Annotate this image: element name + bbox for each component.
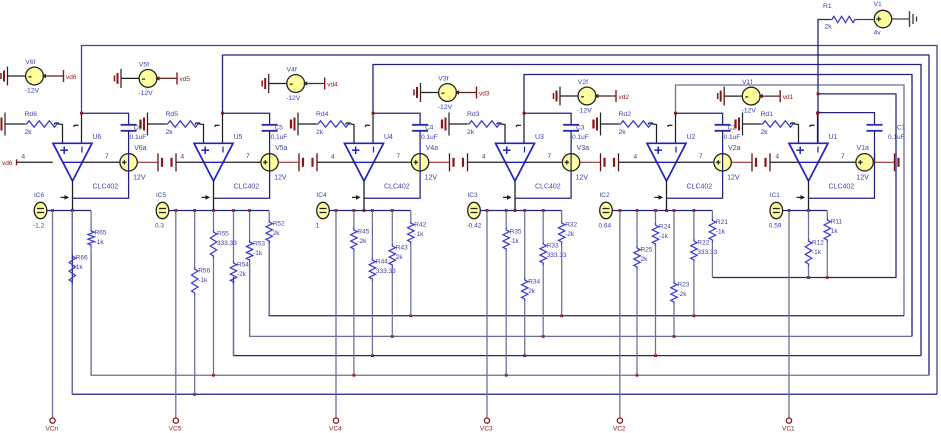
wire U2 + input vertical — [656, 142, 658, 144]
resistor R22 — [691, 239, 697, 262]
svg-text:4: 4 — [22, 154, 26, 161]
svg-text:12V: 12V — [857, 175, 870, 182]
svg-text:IC6: IC6 — [34, 192, 45, 199]
svg-text:2k: 2k — [761, 129, 769, 136]
svg-text:Rd5: Rd5 — [166, 111, 179, 118]
svg-text:U5: U5 — [234, 134, 243, 141]
wire node to C6 — [82, 113, 129, 125]
junction dot top feed / C1 branch — [817, 111, 820, 114]
svg-text:vd6: vd6 — [2, 160, 13, 167]
junction dot - input node U3 — [523, 112, 526, 115]
svg-text:7: 7 — [105, 153, 109, 160]
svg-text:V4a: V4a — [426, 145, 439, 152]
svg-text:R45: R45 — [357, 229, 369, 236]
svg-text:Rd2: Rd2 — [619, 111, 632, 118]
svg-text:12V: 12V — [274, 175, 287, 182]
svg-text:V2a: V2a — [728, 145, 741, 152]
svg-text:CLC402: CLC402 — [234, 184, 260, 191]
battery (Rd2 input) — [592, 120, 594, 129]
wire V4a feedback loop — [364, 154, 420, 199]
svg-text:R25: R25 — [641, 247, 653, 254]
wire feedback row net f4 bottom (to R54) — [234, 277, 922, 356]
svg-text:-1.2: -1.2 — [33, 223, 45, 230]
svg-text:-1k: -1k — [198, 277, 208, 284]
svg-text:-1k: -1k — [716, 229, 726, 236]
svg-text:C1: C1 — [897, 125, 906, 132]
svg-text:1k: 1k — [76, 264, 84, 271]
battery (Rd3 input) — [441, 120, 443, 129]
svg-text:0.3: 0.3 — [155, 223, 164, 230]
wire U2 output — [666, 181, 668, 211]
svg-text:333.33: 333.33 — [547, 252, 567, 259]
wire node line stage 1 — [783, 210, 828, 212]
pin stub U5 pin 2 — [215, 124, 220, 126]
svg-text:IC4: IC4 — [317, 192, 328, 199]
wire to port VC2 — [619, 211, 621, 418]
svg-text:-1k: -1k — [510, 238, 520, 245]
svg-text:4: 4 — [181, 153, 185, 160]
svg-text:2k: 2k — [25, 129, 33, 136]
output arrow U6 — [61, 196, 69, 198]
svg-text:R12: R12 — [812, 240, 824, 247]
wire node to C4 — [373, 113, 420, 125]
wire R1 to V1 — [857, 19, 875, 21]
op-amp U3 — [496, 143, 535, 181]
wire Rd4 to U4 + input — [351, 124, 355, 143]
svg-text:R35: R35 — [510, 229, 522, 236]
wire battery to Rd6 — [5, 123, 25, 125]
battery (V2a output) — [751, 153, 753, 171]
voltage source V1f — [742, 87, 760, 105]
wire V6a to battery — [137, 161, 158, 163]
svg-text:4: 4 — [331, 153, 335, 160]
wire U6 - input — [81, 113, 83, 143]
wire ground to V6f — [8, 75, 26, 77]
wire ground to V2f — [560, 95, 578, 97]
port VC2 — [617, 418, 622, 423]
svg-text:C3: C3 — [576, 125, 585, 132]
wire Rd2 to U2 + input — [653, 124, 657, 143]
pin stub U3 pin 3 — [497, 122, 502, 124]
svg-text:R43: R43 — [396, 245, 408, 252]
svg-text:R66: R66 — [76, 255, 88, 262]
wire R24 branch — [655, 211, 657, 224]
wire U3 output — [514, 181, 516, 211]
voltage source V3f — [439, 84, 457, 102]
svg-text:R53: R53 — [253, 241, 265, 248]
svg-text:vd1: vd1 — [783, 94, 794, 101]
junction dots node line stage 3 — [486, 209, 489, 212]
svg-text:R54: R54 — [237, 262, 249, 269]
junction dots node line stage 1 — [788, 209, 791, 212]
wire U1 + input vertical — [798, 142, 800, 144]
wire R42 branch — [410, 211, 412, 222]
svg-text:R22: R22 — [697, 240, 709, 247]
svg-text:Rd1: Rd1 — [761, 111, 774, 118]
svg-text:U2: U2 — [687, 134, 696, 141]
svg-text:CLC402: CLC402 — [829, 184, 855, 191]
svg-text:R33: R33 — [547, 243, 559, 250]
voltage source V2f — [578, 87, 596, 105]
wire U4 - input — [372, 113, 374, 143]
junction dots node line stage 2 — [619, 209, 622, 212]
svg-text:-2k: -2k — [357, 238, 367, 245]
svg-text:VC3: VC3 — [480, 426, 493, 433]
svg-text:VC1: VC1 — [782, 426, 795, 433]
svg-text:7: 7 — [548, 153, 552, 160]
node flag vd2 — [615, 90, 617, 102]
wire V5a feedback loop — [214, 154, 270, 199]
svg-text:CLC402: CLC402 — [384, 184, 410, 191]
wire V3a to battery — [580, 161, 601, 163]
node flag vd6 — [63, 70, 65, 82]
svg-text:-0.42: -0.42 — [467, 223, 482, 230]
svg-text:IC3: IC3 — [468, 192, 479, 199]
svg-text:12V: 12V — [133, 175, 146, 182]
wire node line stage 4 — [329, 210, 411, 212]
svg-text:0.1uF: 0.1uF — [888, 134, 905, 141]
svg-text:-1k: -1k — [414, 231, 424, 238]
wire battery to Rd2 — [601, 123, 619, 125]
resistor R33 — [540, 242, 546, 265]
svg-text:4v: 4v — [874, 30, 882, 37]
junction dot top feed / bus f1 — [817, 93, 820, 96]
current source IC6 — [34, 202, 47, 218]
svg-text:R23: R23 — [678, 282, 690, 289]
battery (V3a output) — [600, 153, 602, 171]
current source IC3 — [468, 202, 481, 218]
voltage source V1 — [874, 10, 891, 27]
wire feedback row net f6 bottom (to R66) — [72, 212, 937, 395]
wire ground to V5f — [121, 77, 139, 79]
wire C3 to V3a — [570, 131, 572, 154]
op-amp U2 — [647, 143, 686, 181]
svg-text:12V: 12V — [727, 175, 740, 182]
op-amp U5 — [194, 143, 233, 181]
wire feedback bus net f5 (U5 - input loop) — [223, 55, 930, 375]
svg-text:-2k: -2k — [565, 231, 575, 238]
wire C1 branch — [818, 113, 875, 125]
current source IC1 — [770, 202, 783, 218]
svg-text:7: 7 — [397, 153, 401, 160]
svg-text:V6f: V6f — [25, 59, 35, 66]
resistor R65 — [88, 229, 94, 247]
svg-text:0.1uF: 0.1uF — [724, 134, 741, 141]
battery (V6a output) — [157, 153, 159, 171]
wire V2a feedback loop — [667, 154, 723, 199]
svg-text:2k: 2k — [467, 129, 475, 136]
svg-text:R1: R1 — [823, 3, 832, 10]
pin stub U6 pin 3 — [55, 122, 60, 124]
svg-text:-12V: -12V — [577, 108, 592, 115]
svg-text:R44: R44 — [376, 259, 388, 266]
wire battery to Rd3 — [449, 123, 467, 125]
wire R53 branch — [249, 211, 251, 241]
svg-text:0.64: 0.64 — [599, 223, 612, 230]
wire C4 to V4a — [419, 131, 421, 154]
op-amp U4 — [345, 143, 384, 181]
wire U6 + input vertical — [62, 142, 64, 144]
wire V2a battery to U1 pin 4 — [770, 161, 799, 163]
resistor R12 — [805, 239, 811, 266]
svg-text:333.33: 333.33 — [697, 249, 717, 256]
svg-text:-12V: -12V — [138, 90, 153, 97]
svg-text:-12V: -12V — [286, 95, 301, 102]
wire V1a feedback loop — [809, 154, 875, 199]
voltage source V5f — [139, 70, 157, 88]
wire U2 pin 7 to V2a — [676, 161, 714, 163]
wire V1 top feed (R1 left node down to U1 - input) — [818, 20, 830, 144]
svg-text:R11: R11 — [831, 219, 843, 226]
wire battery to Rd1 — [743, 123, 761, 125]
resistor R66 — [69, 254, 75, 284]
wire V4a battery to U3 pin 4 — [468, 161, 506, 163]
svg-text:R52: R52 — [273, 221, 285, 228]
wire feedback row net f3 bottom (to R53) — [250, 262, 912, 336]
wire V6f to node flag — [43, 75, 63, 77]
svg-text:IC1: IC1 — [770, 192, 781, 199]
wire ground to V1f — [724, 95, 742, 97]
svg-text:R42: R42 — [414, 222, 426, 229]
node flag vd4 — [324, 78, 326, 90]
resistor Rd5 — [166, 121, 201, 127]
junction dot - input node U2 — [674, 112, 677, 115]
svg-text:VC5: VC5 — [169, 426, 182, 433]
wire V5f to node flag — [157, 77, 177, 79]
wire to port VC4 — [335, 211, 337, 418]
capacitor C1 — [867, 124, 883, 126]
wire node line stage 6 — [47, 210, 91, 212]
wire to port VC3 — [486, 211, 488, 418]
wire feedback bus net f3 (U3 - input loop) — [524, 75, 912, 337]
wire V3a feedback loop — [515, 154, 571, 199]
svg-text:V5a: V5a — [275, 145, 288, 152]
svg-text:CLC402: CLC402 — [535, 184, 561, 191]
wire U5 pin 7 to V5a — [223, 161, 261, 163]
resistor R54 — [230, 261, 236, 284]
wire C1 to V1a — [874, 131, 876, 163]
port VCn — [50, 418, 55, 423]
wire V4a to battery — [429, 161, 450, 163]
port VC5 — [173, 418, 178, 423]
resistor R11 — [824, 218, 830, 242]
wire R33 branch — [542, 211, 544, 243]
resistor R23 — [671, 281, 677, 304]
resistor R1 — [830, 16, 857, 22]
wire U3 pin 7 to V3a — [525, 161, 563, 163]
svg-text:-2k: -2k — [678, 291, 688, 298]
current source IC2 — [600, 202, 613, 218]
wire U1 pin 7 to V1a — [818, 161, 856, 163]
svg-text:0.1uF: 0.1uF — [572, 134, 589, 141]
wire ground to V4f — [269, 83, 287, 85]
svg-text:2k: 2k — [396, 254, 404, 261]
wire R21 branch — [711, 211, 713, 219]
wire U1 - input — [817, 113, 819, 143]
svg-text:Rd3: Rd3 — [467, 111, 480, 118]
svg-text:4: 4 — [776, 153, 780, 160]
wire node to C3 — [524, 113, 571, 125]
svg-text:0.59: 0.59 — [769, 223, 782, 230]
svg-text:333.33: 333.33 — [376, 268, 396, 275]
pin stub U6 pin 2 — [74, 124, 79, 126]
junction dots node line stage 5 — [174, 209, 177, 212]
svg-text:-12V: -12V — [742, 108, 757, 115]
svg-text:U4: U4 — [384, 134, 393, 141]
wire R22 branch — [693, 211, 695, 240]
junction dots node line stage 4 — [335, 209, 338, 212]
junction dots on feedback rows — [193, 393, 196, 396]
capacitor C2 — [715, 124, 731, 126]
resistor Rd2 — [619, 121, 654, 127]
svg-text:-1k: -1k — [659, 233, 669, 240]
svg-text:CLC402: CLC402 — [93, 184, 119, 191]
pin stub U5 pin 3 — [196, 122, 201, 124]
wire Rd5 to U5 + input — [200, 124, 204, 143]
current source IC4 — [317, 202, 330, 218]
svg-text:R55: R55 — [217, 231, 229, 238]
wire R52 branch — [268, 211, 270, 221]
battery (V1a output) — [894, 153, 896, 171]
svg-text:U3: U3 — [535, 134, 544, 141]
wire to port VC1 — [788, 211, 790, 418]
wire R35 branch — [505, 211, 507, 229]
wire U5 - input — [222, 113, 224, 143]
wire R66 branch — [71, 211, 73, 255]
wire feedback bus net f4 (U4 - input loop) — [373, 65, 921, 356]
wire V5a to battery — [278, 161, 299, 163]
capacitor C3 — [563, 124, 579, 126]
svg-text:0.1uF: 0.1uF — [421, 134, 438, 141]
port VC3 — [484, 418, 489, 423]
svg-text:C4: C4 — [425, 125, 434, 132]
svg-text:0.1uF: 0.1uF — [271, 134, 288, 141]
wire node line stage 3 — [480, 210, 561, 212]
svg-text:2k: 2k — [316, 129, 324, 136]
svg-text:Rd4: Rd4 — [316, 111, 329, 118]
svg-text:7: 7 — [841, 153, 845, 160]
wire ground to V3f — [421, 92, 439, 94]
resistor R21 — [709, 219, 715, 243]
svg-text:vd6: vd6 — [66, 74, 77, 81]
wire U3 - input — [523, 113, 525, 143]
wire R56 branch — [194, 211, 196, 268]
wire node to C2 — [676, 113, 723, 125]
svg-text:R56: R56 — [198, 268, 210, 275]
svg-text:7: 7 — [699, 153, 703, 160]
wire V4f to node flag — [305, 83, 325, 85]
wire feedback row net f2 bottom (to R52) — [269, 241, 904, 316]
port VC1 — [786, 418, 791, 423]
battery (Rd5 input) — [139, 120, 141, 129]
output arrow U2 — [655, 196, 663, 198]
svg-text:R32: R32 — [565, 222, 577, 229]
junction dot - input node U5 — [221, 112, 224, 115]
battery (Rd1 input) — [734, 120, 736, 129]
svg-text:IC2: IC2 — [600, 192, 611, 199]
junction dot - input node U6 — [80, 112, 83, 115]
wire R54 branch — [233, 211, 235, 262]
wire R44 branch — [371, 211, 373, 259]
svg-text:vd3: vd3 — [479, 90, 490, 97]
svg-text:1: 1 — [316, 223, 320, 230]
wire U6 pin 7 to V6a — [82, 161, 120, 163]
resistor R34 — [522, 278, 528, 301]
resistor R32 — [559, 221, 565, 244]
pin stub U2 pin 3 — [649, 122, 654, 124]
ground (V1) — [909, 11, 911, 27]
svg-text:IC5: IC5 — [156, 192, 167, 199]
wire Rd6 to U6 + input — [59, 124, 63, 143]
resistor Rd4 — [316, 121, 351, 127]
ground (V1f) — [723, 87, 725, 106]
svg-text:333.33: 333.33 — [217, 240, 237, 247]
svg-text:V1f: V1f — [742, 79, 752, 86]
wire node to C5 — [223, 113, 270, 125]
svg-text:2k: 2k — [825, 24, 833, 31]
wire V6a feedback loop — [73, 154, 129, 199]
svg-text:VC2: VC2 — [613, 426, 626, 433]
svg-text:U6: U6 — [93, 134, 102, 141]
wire R32 branch — [561, 211, 563, 222]
svg-text:-1k: -1k — [95, 239, 105, 246]
pin stub U3 pin 2 — [517, 124, 522, 126]
resistor Rd1 — [761, 121, 796, 127]
current source IC5 — [156, 202, 169, 218]
resistor R52 — [266, 220, 272, 243]
ground (V5f) — [120, 69, 122, 88]
svg-text:R21: R21 — [716, 219, 728, 226]
capacitor C5 — [262, 124, 278, 126]
output arrow U1 — [797, 196, 805, 198]
svg-text:2k: 2k — [641, 256, 649, 263]
svg-text:C5: C5 — [275, 125, 284, 132]
svg-text:R34: R34 — [528, 279, 540, 286]
wire feedback loop net f1 (U1 - input local loop to R21 row) — [712, 94, 896, 278]
svg-text:V1a: V1a — [857, 145, 870, 152]
wire C2 to V2a — [722, 131, 724, 154]
wire battery to Rd4 — [298, 123, 316, 125]
svg-text:2k: 2k — [528, 288, 536, 295]
wire node line stage 5 — [169, 210, 269, 212]
wire V3a battery to U2 pin 4 — [619, 161, 657, 163]
wire V1f to node flag — [760, 95, 780, 97]
wire to port VC5 — [175, 211, 177, 418]
wire R43 branch — [391, 211, 393, 245]
pin stub U4 pin 3 — [346, 122, 351, 124]
svg-text:12V: 12V — [425, 175, 438, 182]
wire V1 to ground — [892, 18, 910, 20]
output arrow U3 — [503, 196, 511, 198]
svg-text:4: 4 — [634, 153, 638, 160]
wire feedback bus net f2 (U2 - input loop) — [676, 85, 905, 316]
wire U1 output — [808, 181, 810, 211]
svg-text:2k: 2k — [273, 230, 281, 237]
ground (V6f) — [7, 67, 9, 86]
wire Rd3 to U3 + input — [502, 124, 506, 143]
svg-text:R24: R24 — [659, 224, 671, 231]
resistor Rd6 — [25, 121, 60, 127]
svg-text:-1k: -1k — [812, 249, 822, 256]
wire U6 output — [72, 181, 74, 211]
svg-text:VC4: VC4 — [329, 426, 342, 433]
pin stub U1 pin 3 — [791, 122, 796, 124]
svg-text:-1k: -1k — [253, 250, 263, 257]
wire to port VCn — [52, 211, 54, 418]
wire V2f to node flag — [596, 95, 616, 97]
wire U2 - input — [675, 113, 677, 143]
wire V3f to node flag — [456, 92, 476, 94]
